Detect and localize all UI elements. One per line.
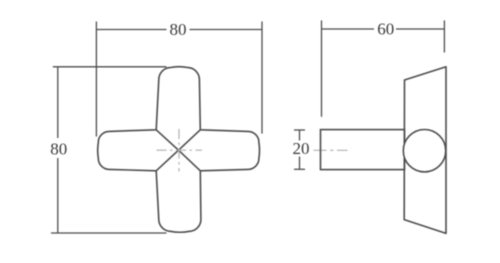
dimension 80 top: right extension line <box>261 22 263 134</box>
centerline of side view shaft <box>314 149 348 151</box>
svg-text:80: 80 <box>50 140 67 159</box>
fillet diagonal: inner top-left corner to center <box>156 130 178 150</box>
svg-text:80: 80 <box>170 20 187 39</box>
dimension 80 left: top extension line <box>53 66 167 68</box>
side view: center boss circle <box>403 130 445 172</box>
fillet diagonal: inner bottom-left corner to center <box>156 150 178 171</box>
dimension 80 top: left extension line <box>95 22 97 137</box>
dimension 80 left: dimension line (gapped for text) <box>57 67 59 138</box>
center mark: vertical dash-dot centerline of cross <box>157 129 348 172</box>
dimension 60: dimension line (gapped for text) <box>322 28 375 30</box>
side view: shaft rectangle <box>321 130 405 170</box>
dimension 80 top: dimension line (gapped for text) <box>96 29 166 31</box>
dimension 20: bottom serif tick <box>294 168 305 170</box>
fillet diagonal: inner top-right corner to center <box>179 130 201 150</box>
svg-text:20: 20 <box>293 139 310 158</box>
dimension 60: left extension line <box>321 20 323 116</box>
side view: tapered arm profile (trapezoid) <box>404 67 446 234</box>
center mark: horizontal dash-dot centerline of cross <box>157 149 203 151</box>
fillet diagonal: inner bottom-right corner to center <box>179 150 201 171</box>
dimension 80 left: bottom extension line <box>51 232 167 234</box>
dimension 20: dimension line (gapped for text) <box>299 130 301 141</box>
dimension 60: right extension line <box>443 20 445 52</box>
svg-text:60: 60 <box>377 19 394 38</box>
cross knob outline (front view) <box>98 67 260 233</box>
dimension 20: top serif tick <box>294 129 305 131</box>
